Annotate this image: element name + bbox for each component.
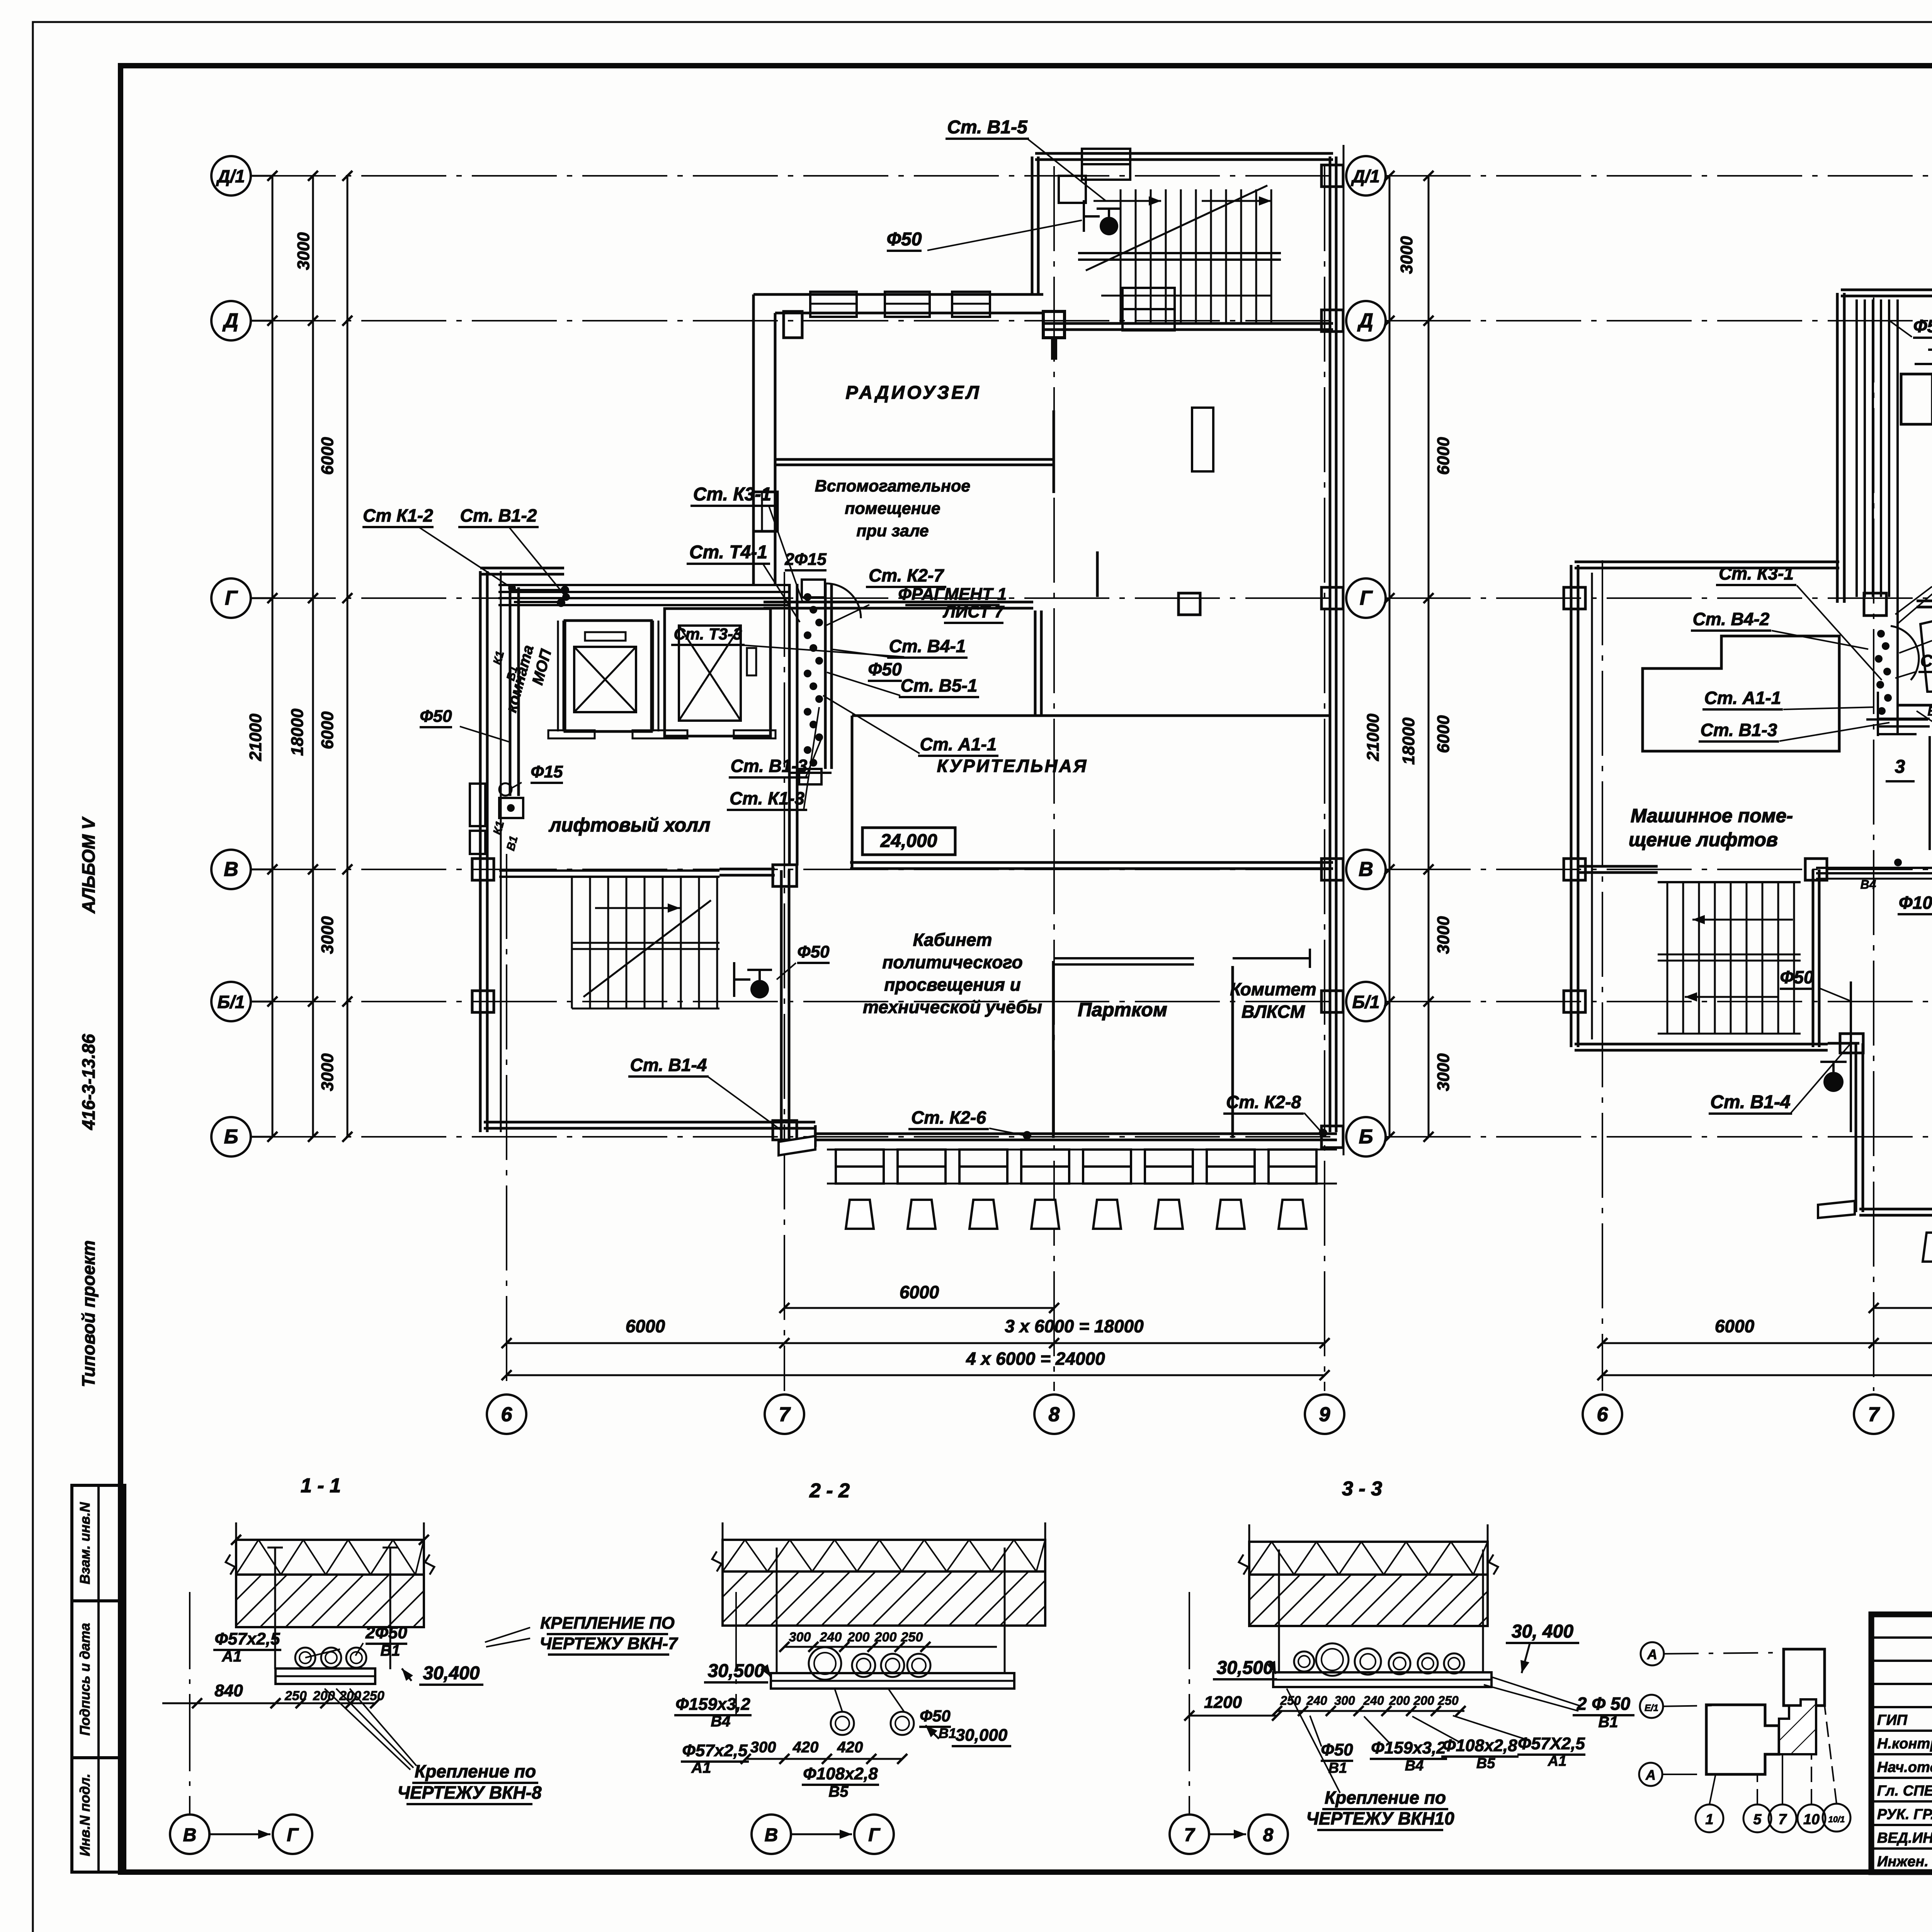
svg-text:250: 250	[1437, 1694, 1459, 1708]
svg-text:Ст К1-2: Ст К1-2	[363, 505, 433, 526]
svg-text:В5: В5	[1476, 1755, 1495, 1772]
svg-text:Д/1: Д/1	[1350, 166, 1380, 186]
svg-text:7: 7	[1868, 1403, 1880, 1426]
axis squares right plan left wall	[1564, 587, 1585, 609]
key plan lower rect	[1706, 1705, 1779, 1774]
svg-text:300: 300	[789, 1630, 811, 1645]
svg-text:9: 9	[1319, 1403, 1330, 1426]
svg-text:420: 420	[837, 1739, 863, 1756]
svg-text:Ст. В4-1: Ст. В4-1	[889, 636, 966, 656]
svg-text:6000: 6000	[1434, 437, 1453, 475]
svg-text:3000: 3000	[318, 916, 337, 954]
svg-text:В: В	[765, 1825, 778, 1845]
svg-text:2 - 2: 2 - 2	[809, 1480, 850, 1502]
top stair treads	[1120, 189, 1122, 325]
svg-text:Ф108x2,8: Ф108x2,8	[803, 1764, 878, 1783]
svg-text:30,000: 30,000	[956, 1726, 1008, 1745]
vent block top wall	[1841, 289, 1932, 291]
svg-text:200: 200	[1389, 1694, 1410, 1708]
svg-text:Ф159x3,2: Ф159x3,2	[1371, 1738, 1446, 1757]
svg-text:Ф50: Ф50	[1321, 1740, 1353, 1759]
riser cluster right of shafts	[788, 584, 791, 866]
svg-text:Ст. К2-8: Ст. К2-8	[1226, 1092, 1301, 1112]
svg-text:А: А	[1645, 1767, 1656, 1783]
svg-text:6: 6	[1597, 1403, 1609, 1426]
svg-text:РУК. ГР.: РУК. ГР.	[1877, 1806, 1932, 1823]
svg-text:помещение: помещение	[845, 499, 940, 518]
key plan tall rect	[1784, 1649, 1825, 1706]
lift shaft 1	[565, 621, 651, 731]
svg-text:3: 3	[1895, 757, 1905, 777]
svg-text:ГИП: ГИП	[1877, 1712, 1908, 1728]
svg-text:6000: 6000	[626, 1316, 665, 1336]
dots cluster at wall junction	[1877, 630, 1885, 638]
arc door near fragment	[826, 583, 861, 618]
svg-text:А: А	[1647, 1646, 1657, 1662]
svg-text:В1: В1	[1598, 1714, 1618, 1731]
svg-text:КУРИТЕЛЬНАЯ: КУРИТЕЛЬНАЯ	[937, 756, 1088, 776]
svg-text:21000: 21000	[1364, 713, 1383, 761]
svg-text:Ф50: Ф50	[920, 1707, 951, 1725]
svg-text:3000: 3000	[318, 1053, 337, 1091]
svg-text:420: 420	[793, 1739, 819, 1756]
svg-text:Е/1: Е/1	[1645, 1703, 1658, 1713]
svg-text:Ст. А1-1: Ст. А1-1	[1704, 688, 1781, 708]
V axis wall right plan	[1579, 865, 1658, 868]
svg-text:Взам. инв.N: Взам. инв.N	[77, 1502, 93, 1585]
svg-text:300: 300	[750, 1739, 776, 1756]
svg-text:Ф57X2,5: Ф57X2,5	[1518, 1734, 1585, 1753]
section 1-1 leader to krepenie	[325, 1689, 410, 1770]
left plan: top stair block walls	[1035, 152, 1333, 155]
svg-text:Д: Д	[222, 310, 238, 332]
K3 V1 F15 pipe runs	[1928, 349, 1932, 351]
lift hall left outer wall	[479, 571, 482, 1132]
section 2-2 axis circles	[735, 1592, 737, 1716]
section 2-2 pipes	[809, 1647, 841, 1680]
section 1-1 hanger rods	[274, 1548, 276, 1669]
svg-text:Ст. В1-3: Ст. В1-3	[1701, 720, 1777, 740]
left wing bottom wall	[484, 1121, 815, 1124]
svg-text:ЧЕРТЕЖУ ВКН10: ЧЕРТЕЖУ ВКН10	[1306, 1808, 1454, 1828]
key plan axis lines	[1664, 1653, 1784, 1654]
svg-text:Ст. В1-3: Ст. В1-3	[731, 756, 808, 776]
right plan lower stair	[1658, 881, 1801, 883]
section 3-3 axis circles	[1189, 1592, 1190, 1815]
horizontal axis lines	[251, 175, 1337, 177]
svg-text:Ф159x3,2: Ф159x3,2	[675, 1695, 750, 1714]
trapezoids below right plan	[1923, 1233, 1932, 1262]
pipe bundle elbow down to tank room	[1929, 736, 1931, 850]
svg-text:7: 7	[1778, 1811, 1787, 1828]
svg-text:18000: 18000	[288, 708, 307, 756]
svg-text:В5: В5	[828, 1783, 849, 1800]
svg-text:технической учебы: технической учебы	[863, 997, 1042, 1017]
svg-text:10: 10	[1803, 1811, 1820, 1828]
left plan bottom wall B axis	[815, 1133, 1337, 1135]
V wall segment stair to partition	[719, 868, 775, 871]
svg-text:6000: 6000	[1434, 715, 1453, 753]
bottom stair left wing	[499, 869, 719, 872]
svg-text:Ф57x2,5: Ф57x2,5	[682, 1741, 748, 1760]
svg-text:Ф57x2,5: Ф57x2,5	[215, 1629, 280, 1648]
svg-text:3000: 3000	[294, 232, 313, 270]
svg-text:Б: Б	[224, 1126, 238, 1148]
svg-text:6000: 6000	[1715, 1316, 1755, 1336]
svg-text:Б/1: Б/1	[218, 992, 245, 1012]
svg-text:просвещения и: просвещения и	[884, 975, 1020, 995]
stair direction arrows	[1094, 200, 1161, 202]
svg-text:В: В	[183, 1825, 197, 1845]
window boxes on D wall	[810, 292, 857, 317]
svg-text:Ф108x2,8: Ф108x2,8	[1899, 893, 1932, 913]
lift shaft 2	[665, 609, 770, 736]
svg-text:416-3-13.86: 416-3-13.86	[78, 1034, 99, 1130]
svg-text:Г: Г	[868, 1825, 881, 1845]
svg-text:политического: политического	[882, 952, 1022, 972]
main title block frame	[1871, 1614, 1932, 1872]
svg-text:Кабинет: Кабинет	[913, 930, 992, 950]
section 1-1 slab	[236, 1540, 424, 1575]
svg-text:Ст. К3-1: Ст. К3-1	[693, 484, 771, 505]
svg-text:ЛИСТ 7: ЛИСТ 7	[942, 602, 1005, 621]
svg-text:Ст. Т3-3: Ст. Т3-3	[674, 625, 742, 643]
key plan numbered circles	[1696, 1804, 1723, 1832]
komitet partition	[1231, 966, 1234, 1138]
svg-text:Ст. К1-3: Ст. К1-3	[730, 788, 804, 808]
section 2-2 bracket	[771, 1673, 1014, 1689]
svg-text:240: 240	[820, 1630, 842, 1645]
svg-text:200: 200	[847, 1630, 870, 1645]
svg-text:30,500: 30,500	[1217, 1658, 1274, 1678]
svg-text:Подпись и дата: Подпись и дата	[77, 1623, 93, 1736]
section 1-1 axis circles	[189, 1592, 190, 1815]
svg-text:Комитет: Комитет	[1230, 979, 1316, 999]
left strip stamp boxes	[72, 1485, 125, 1601]
svg-text:В: В	[224, 858, 238, 881]
svg-text:Ф50: Ф50	[420, 707, 452, 726]
svg-text:6000: 6000	[318, 437, 337, 475]
svg-text:Партком: Партком	[1078, 999, 1167, 1020]
svg-text:250: 250	[362, 1689, 384, 1703]
svg-text:КРЕПЛЕНИЕ ПО: КРЕПЛЕНИЕ ПО	[540, 1614, 675, 1633]
radiouzel room walls	[753, 293, 1043, 296]
svg-text:21000: 21000	[246, 713, 265, 761]
left pipe boxes on outer wall	[470, 784, 485, 826]
svg-text:А1: А1	[691, 1759, 711, 1776]
bottom dimension rows right plan	[1874, 1307, 1932, 1309]
svg-text:А1: А1	[221, 1648, 241, 1665]
vertical pipe bundle	[1855, 299, 1858, 597]
svg-text:Вспомогательное: Вспомогательное	[815, 477, 970, 495]
svg-text:Ст. В1-4: Ст. В1-4	[630, 1055, 707, 1075]
svg-text:Ст. В1-2: Ст. В1-2	[460, 505, 537, 526]
svg-text:лифтовый холл: лифтовый холл	[549, 814, 711, 836]
section 3-3 slab	[1249, 1542, 1488, 1575]
svg-text:Ф50: Ф50	[887, 229, 922, 250]
svg-text:Ф15: Ф15	[531, 762, 563, 781]
svg-text:8: 8	[1263, 1825, 1274, 1845]
lift hall top inner wall	[498, 584, 790, 586]
stair room right wall	[1812, 869, 1815, 1047]
svg-text:Машинное поме-: Машинное поме-	[1631, 805, 1793, 827]
svg-text:Ст. К2-7: Ст. К2-7	[869, 565, 944, 585]
svg-text:А1: А1	[1548, 1753, 1567, 1769]
pipes along MOP room	[509, 587, 512, 796]
svg-text:Инжен.: Инжен.	[1877, 1854, 1929, 1870]
riser valve at stair entry	[1059, 176, 1086, 203]
svg-text:2Ф50: 2Ф50	[365, 1623, 407, 1642]
svg-text:Ф50: Ф50	[1913, 316, 1932, 336]
svg-text:В1: В1	[939, 1725, 956, 1741]
section 3-3 rods	[1278, 1549, 1280, 1671]
svg-text:В4: В4	[711, 1713, 730, 1730]
svg-text:Крепление по: Крепление по	[415, 1761, 536, 1781]
svg-text:6000: 6000	[318, 711, 337, 749]
svg-text:Г: Г	[225, 587, 238, 609]
svg-text:Ст. В5-1: Ст. В5-1	[901, 675, 978, 696]
svg-text:Г: Г	[1360, 587, 1373, 609]
section 3-3 pipes	[1294, 1651, 1314, 1672]
svg-text:Ст. К3-1: Ст. К3-1	[1719, 563, 1794, 583]
svg-text:РАДИОУЗЕЛ: РАДИОУЗЕЛ	[845, 383, 981, 403]
svg-text:ЧЕРТЕЖУ ВКН-8: ЧЕРТЕЖУ ВКН-8	[397, 1782, 542, 1803]
bottom dimension rows left plan	[784, 1307, 1054, 1309]
svg-text:3000: 3000	[1397, 236, 1416, 274]
svg-text:1 - 1: 1 - 1	[301, 1475, 341, 1497]
trapezoid supports below left plan	[846, 1200, 874, 1229]
bottom-left valve	[1823, 1072, 1844, 1092]
left axis grid circles and dimension lines	[211, 156, 251, 196]
svg-text:АЛЬБОМ V: АЛЬБОМ V	[78, 816, 99, 914]
spur at bottom left corner	[779, 1136, 815, 1155]
svg-text:8: 8	[1049, 1403, 1060, 1426]
svg-text:24,000: 24,000	[880, 831, 937, 851]
svg-text:Типовой проект: Типовой проект	[78, 1240, 99, 1387]
svg-text:Ст. В1-4: Ст. В1-4	[1710, 1092, 1790, 1112]
svg-text:3 - 3: 3 - 3	[1342, 1478, 1382, 1500]
svg-text:840: 840	[214, 1681, 243, 1700]
svg-text:30, 400: 30, 400	[1512, 1621, 1573, 1642]
svg-text:В4: В4	[1861, 878, 1876, 891]
interior shaft rect	[1192, 408, 1213, 471]
key plan hatched block	[1779, 1699, 1816, 1754]
svg-text:1200: 1200	[1204, 1693, 1242, 1712]
vent chamber doors (slanted)	[1920, 615, 1932, 692]
svg-text:4 x 6000 = 24000: 4 x 6000 = 24000	[966, 1349, 1105, 1369]
svg-text:7: 7	[1184, 1825, 1196, 1845]
kuritelnaya room walls	[852, 714, 1329, 717]
svg-text:7: 7	[779, 1403, 791, 1426]
svg-text:1: 1	[1705, 1811, 1713, 1828]
right plan bottom wall band	[1859, 1208, 1932, 1211]
middle axis grid circles and dimension lines	[1343, 145, 1345, 1155]
svg-text:ЧЕРТЕЖУ ВКН-7: ЧЕРТЕЖУ ВКН-7	[540, 1634, 679, 1653]
svg-text:Ст. К2-6: Ст. К2-6	[911, 1107, 986, 1128]
section 2-2 rods	[776, 1548, 778, 1673]
svg-text:Ст. В4-2: Ст. В4-2	[1693, 609, 1770, 629]
svg-text:Гл. СПЕЦ.: Гл. СПЕЦ.	[1877, 1783, 1932, 1799]
svg-text:200: 200	[339, 1689, 361, 1703]
svg-text:ВЛКСМ: ВЛКСМ	[1242, 1002, 1306, 1022]
svg-text:240: 240	[1363, 1694, 1384, 1708]
svg-text:2 Ф 50: 2 Ф 50	[1577, 1694, 1631, 1714]
svg-text:200: 200	[1413, 1694, 1434, 1708]
spur bottom-left right plan	[1818, 1201, 1855, 1218]
svg-text:Б: Б	[1359, 1126, 1373, 1148]
section 3-3 bracket	[1273, 1672, 1492, 1687]
svg-text:300: 300	[1334, 1694, 1355, 1708]
svg-text:Ф50: Ф50	[868, 659, 901, 679]
svg-text:при зале: при зале	[856, 522, 929, 540]
vertical axis lines	[506, 854, 507, 1391]
svg-text:240: 240	[1306, 1694, 1327, 1708]
svg-text:Д/1: Д/1	[216, 166, 245, 186]
svg-text:В1: В1	[380, 1642, 400, 1659]
svg-text:5: 5	[1753, 1811, 1762, 1828]
svg-text:В1: В1	[1927, 704, 1932, 719]
section 1-1 pipes	[295, 1648, 315, 1668]
P18 duct	[1901, 374, 1932, 424]
valve near st V1-4	[750, 980, 769, 998]
svg-text:Б/1: Б/1	[1352, 992, 1380, 1012]
svg-text:ФРАГМЕНТ 1: ФРАГМЕНТ 1	[898, 585, 1007, 604]
svg-text:6: 6	[501, 1403, 513, 1426]
section 1-1 bracket	[276, 1668, 375, 1684]
axis squares on left wall	[472, 859, 494, 880]
G axis wall of left wing	[480, 567, 564, 570]
svg-text:Крепление по: Крепление по	[1325, 1787, 1446, 1808]
right plan: machine room outer walls	[1575, 561, 1839, 563]
bottom window sill row	[836, 1150, 884, 1167]
section 2-2 slab	[723, 1540, 1045, 1571]
svg-text:Ст. А1-3: Ст. А1-3	[1920, 651, 1932, 670]
svg-text:ВЕД.ИНЖ.: ВЕД.ИНЖ.	[1877, 1830, 1932, 1846]
svg-text:3 x 6000 = 18000: 3 x 6000 = 18000	[1005, 1316, 1144, 1336]
section 2-2 lower pipes	[831, 1712, 854, 1735]
svg-text:Инв.N подл.: Инв.N подл.	[77, 1774, 93, 1856]
svg-text:В4: В4	[1405, 1758, 1424, 1774]
svg-text:30,400: 30,400	[423, 1663, 480, 1684]
right plan bottom-left jog walls	[1855, 1043, 1857, 1212]
svg-text:10/1: 10/1	[1828, 1815, 1845, 1824]
V1 lines	[1866, 718, 1932, 721]
svg-text:18000: 18000	[1399, 717, 1418, 765]
svg-text:Нач.отд.: Нач.отд.	[1877, 1759, 1932, 1776]
K3 dashed line	[1898, 704, 1932, 707]
svg-text:Д: Д	[1357, 310, 1373, 332]
svg-text:Ф50: Ф50	[1780, 967, 1813, 987]
machine room inner rect	[1643, 636, 1839, 751]
svg-text:Ст. Т4-1: Ст. Т4-1	[689, 542, 767, 563]
svg-text:Г: Г	[287, 1825, 299, 1845]
svg-text:Ст. А1-1: Ст. А1-1	[920, 734, 997, 754]
svg-text:Н.контр.: Н.контр.	[1877, 1736, 1932, 1752]
svg-text:6000: 6000	[900, 1282, 939, 1302]
column 7 partition with pipes	[780, 870, 783, 1140]
svg-text:3000: 3000	[1434, 1053, 1453, 1091]
left plan right wall full height	[1329, 332, 1332, 1132]
G axis wall right plan	[1917, 600, 1932, 602]
svg-text:Ф50: Ф50	[797, 942, 830, 961]
svg-text:3000: 3000	[1434, 916, 1453, 954]
partkom partition	[1052, 961, 1055, 1138]
svg-text:В: В	[1359, 858, 1373, 881]
24,000 elevation box	[862, 828, 955, 855]
svg-text:Ст. В1-5: Ст. В1-5	[947, 117, 1028, 138]
stair window boxes on top wall	[1082, 149, 1130, 164]
axis squares on right wall of left plan	[1321, 165, 1343, 187]
svg-text:щение лифтов: щение лифтов	[1629, 829, 1778, 850]
